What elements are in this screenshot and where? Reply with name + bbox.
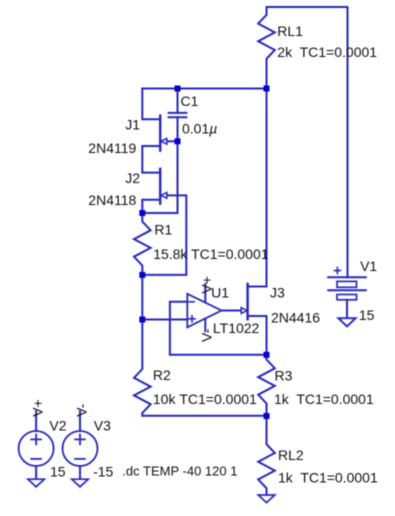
svg-text:R3: R3 <box>275 368 293 384</box>
svg-text:RL2: RL2 <box>278 447 304 463</box>
svg-text:V3: V3 <box>94 418 111 434</box>
svg-text:V+: V+ <box>199 276 215 294</box>
svg-text:V-: V- <box>73 403 89 417</box>
svg-text:2N4118: 2N4118 <box>88 192 136 208</box>
svg-text:2k TC1=0.0001: 2k TC1=0.0001 <box>277 44 377 60</box>
svg-text:J2: J2 <box>125 170 140 186</box>
svg-text:2N4416: 2N4416 <box>271 310 320 326</box>
svg-text:15: 15 <box>50 464 66 480</box>
svg-text:LT1022: LT1022 <box>213 320 260 336</box>
svg-text:C1: C1 <box>181 93 199 109</box>
svg-text:V-: V- <box>199 328 215 342</box>
svg-text:1k TC1=0.0001: 1k TC1=0.0001 <box>278 470 378 486</box>
svg-text:15.8k TC1=0.0001: 15.8k TC1=0.0001 <box>153 246 269 262</box>
svg-text:R2: R2 <box>153 367 171 383</box>
svg-text:10k TC1=0.0001: 10k TC1=0.0001 <box>153 391 257 407</box>
svg-text:RL1: RL1 <box>277 23 303 39</box>
svg-text:V+: V+ <box>30 399 46 417</box>
svg-text:.dc TEMP -40 120 1: .dc TEMP -40 120 1 <box>122 463 237 478</box>
svg-text:J3: J3 <box>270 285 285 301</box>
svg-text:V2: V2 <box>49 418 66 434</box>
svg-text:J1: J1 <box>125 117 140 133</box>
svg-text:-15: -15 <box>93 464 113 480</box>
svg-text:1k TC1=0.0001: 1k TC1=0.0001 <box>274 391 374 407</box>
svg-text:0.01µ: 0.01µ <box>182 121 217 137</box>
svg-text:V1: V1 <box>360 258 377 274</box>
svg-text:2N4119: 2N4119 <box>88 140 136 156</box>
svg-text:R1: R1 <box>154 222 172 238</box>
svg-text:15: 15 <box>359 307 375 323</box>
